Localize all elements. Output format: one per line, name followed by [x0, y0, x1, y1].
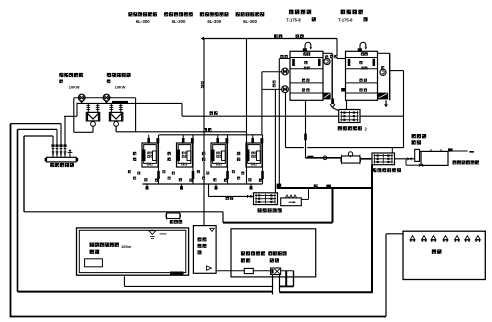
svg-text:6L-300: 6L-300	[243, 19, 257, 24]
svg-text:6L-300: 6L-300	[136, 19, 150, 24]
svg-text:T-175-8: T-175-8	[286, 17, 301, 22]
svg-text:150m: 150m	[121, 244, 132, 249]
svg-text:6L-300: 6L-300	[172, 19, 186, 24]
svg-text:T-175-8: T-175-8	[338, 17, 353, 22]
svg-text:6L-300: 6L-300	[207, 19, 221, 24]
svg-text:10KW: 10KW	[115, 84, 126, 89]
svg-text:10KW: 10KW	[69, 84, 80, 89]
